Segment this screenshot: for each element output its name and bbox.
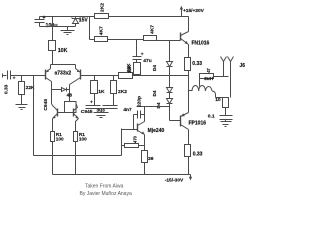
svg-text:4K7: 4K7 (150, 25, 156, 34)
wire riser to 4K7 (90, 17, 95, 40)
wire VAS emitter (144, 135, 146, 146)
resistor 0.33 (top) (185, 58, 203, 71)
diode D1 4148 (152, 62, 172, 72)
resistor 22K (input) (19, 76, 36, 105)
power +15/+30V arrow (180, 6, 205, 17)
wire ground bus y26.4 (40, 26, 76, 28)
capacitor 220p (134, 96, 145, 130)
power -15/-30V arrow (165, 175, 192, 184)
diode D3 4148 (156, 99, 173, 109)
transistor FP1016 (181, 113, 207, 130)
svg-text:+: + (141, 53, 144, 58)
resistor 0.33 (bottom) (185, 145, 203, 158)
transistor Q2 a733 (right of pair) (55, 69, 81, 85)
wire line1 bottom (34, 155, 122, 157)
svg-text:48: 48 (67, 93, 73, 99)
svg-text:a733x2: a733x2 (55, 70, 72, 76)
svg-text:FP1016: FP1016 (189, 121, 207, 127)
wire input (3, 75, 7, 77)
svg-text:-15/-30V: -15/-30V (165, 178, 184, 184)
svg-text:1K: 1K (98, 89, 105, 95)
resistor 2u2 (coil damper) (200, 68, 229, 87)
wire top supply rail y16 (40, 16, 189, 18)
ground (input) (16, 105, 28, 110)
resistor 2K2 (top rail) (95, 3, 109, 19)
wire FN1016 base wire (157, 40, 181, 42)
wire mirror base link (58, 112, 74, 114)
svg-text:39: 39 (148, 156, 154, 162)
svg-text:D4: D4 (152, 90, 157, 96)
svg-text:47u: 47u (143, 58, 151, 64)
wire feedback drop (left) (33, 76, 35, 156)
diode 4148 (between collectors) (52, 88, 73, 99)
svg-text:By Javier Muñoz Anaya: By Javier Muñoz Anaya (80, 191, 132, 197)
capacitor 4n7 (86, 106, 132, 113)
wire y39.5 between 4K7s (108, 39, 144, 41)
resistor 4K7 (left) (95, 26, 108, 42)
svg-text:D4: D4 (156, 102, 161, 108)
svg-text:470: 470 (132, 135, 137, 143)
wire H1 collector node (137, 106, 170, 108)
ground (zener/cap) (61, 27, 75, 35)
wire mirror bridge box (65, 102, 77, 113)
ground (zobel) (221, 122, 232, 127)
capacitor 0.33 (input) (4, 71, 16, 95)
svg-text:J6: J6 (240, 63, 246, 69)
transistor FN1016 (181, 32, 210, 47)
resistor R1 100 (left) (51, 132, 65, 175)
wire VAS collector riser (144, 107, 146, 122)
capacitor 47u (V1 column) (133, 40, 152, 64)
wire rail drop to FN1016 collector (188, 17, 190, 32)
svg-text:D4: D4 (152, 65, 157, 71)
svg-text:100: 100 (56, 137, 64, 142)
svg-text:2uH: 2uH (204, 76, 213, 81)
wire right collector down (69, 85, 71, 102)
svg-text:+: + (43, 15, 46, 21)
svg-text:4n7: 4n7 (123, 107, 132, 113)
svg-text:2K2: 2K2 (118, 89, 127, 95)
wire diode column to FP base (170, 104, 181, 121)
resistor 10K (49, 17, 68, 65)
svg-text:+15/+30V: +15/+30V (183, 8, 205, 14)
resistor 22K (V1 column) (126, 63, 141, 75)
wire input to left base (11, 75, 46, 77)
resistor 4K7 (right) (144, 25, 157, 41)
svg-text:0.1: 0.1 (208, 113, 215, 119)
connector J6 (221, 57, 246, 98)
capacitor 3u3 (86, 99, 106, 113)
svg-text:+: + (13, 77, 16, 82)
wire diff pair top bridge (51, 65, 76, 69)
svg-text:2K2: 2K2 (100, 3, 106, 12)
resistor 22K (feedback) (119, 64, 133, 79)
transistor Q5 Mje240 (122, 122, 165, 135)
transistor Q4 C945 (mirror right) (74, 104, 93, 119)
transistor Q1 a733 (left of pair) (46, 69, 52, 82)
input terminal (2, 74, 4, 78)
svg-text:100u: 100u (46, 23, 58, 29)
wire to negative rail (188, 157, 190, 175)
svg-text:47: 47 (206, 68, 211, 73)
wire feedback to output (133, 75, 189, 77)
inductor 2uH coil (189, 86, 216, 98)
resistor 2K2 (mid) (111, 76, 128, 106)
resistor R1 100 (right) (74, 132, 88, 175)
wire V1 down to H1 (136, 75, 138, 76)
svg-text:100: 100 (79, 137, 87, 142)
svg-text:0.33: 0.33 (193, 151, 203, 157)
svg-text:10K: 10K (58, 48, 68, 54)
capacitor C 100u (35, 15, 58, 29)
svg-text:10: 10 (215, 97, 221, 103)
svg-text:C945: C945 (81, 109, 93, 115)
wire zobel feed (216, 97, 226, 99)
resistor 1K (91, 76, 106, 106)
svg-text:Mje240: Mje240 (148, 128, 165, 134)
svg-text:4K7: 4K7 (98, 26, 104, 35)
capacitor 0.1 (zobel) (208, 113, 233, 121)
svg-text:15V: 15V (79, 17, 89, 23)
resistor 470 (VAS emitter) (122, 135, 145, 147)
wire FP collector (188, 130, 190, 145)
svg-text:0.33: 0.33 (192, 61, 202, 67)
wire feedback line y75.3 (81, 75, 119, 77)
wire left collector down (52, 82, 53, 106)
transistor Q3 C945 (mirror left) (43, 99, 58, 119)
zener diode 15V (72, 17, 89, 27)
diode column stem (169, 41, 171, 62)
wire FN emitter (188, 45, 190, 58)
svg-text:+: + (90, 99, 93, 104)
wire riser to VAS base (121, 129, 123, 156)
wire mirror emitters down (53, 119, 79, 132)
wire (169, 93, 171, 99)
svg-text:Taken From Aiwa: Taken From Aiwa (85, 184, 124, 190)
wire (169, 67, 171, 88)
svg-text:C945: C945 (43, 99, 49, 111)
svg-text:FN1016: FN1016 (192, 41, 210, 47)
wire output column (188, 71, 190, 113)
resistor 10 (zobel) (215, 97, 228, 116)
svg-text:22K: 22K (127, 64, 132, 73)
wire negative rail (53, 174, 191, 176)
resistor 39 (142, 146, 154, 175)
ground (3u3/4n7) (94, 109, 109, 118)
diode D2 4148 (152, 88, 172, 97)
svg-text:0.33: 0.33 (4, 84, 10, 94)
svg-text:220p: 220p (137, 96, 143, 107)
title text (80, 184, 132, 197)
